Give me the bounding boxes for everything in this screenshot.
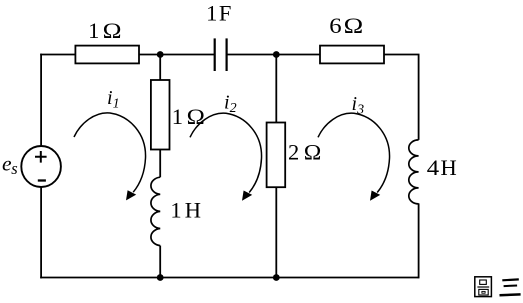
resistor R1 1 ohm horizontal body [75, 46, 139, 64]
wire top segment source to R1 [40, 54, 75, 56]
node A top-left junction dot [157, 51, 164, 58]
inductor L4 4H coil [409, 140, 419, 204]
node C bottom-left junction dot [157, 274, 164, 281]
svg-text:F: F [219, 0, 232, 25]
svg-text:H: H [441, 155, 457, 180]
svg-text:H: H [185, 198, 201, 223]
node D bottom-right junction dot [273, 274, 280, 281]
capacitor C1 left plate [214, 38, 216, 71]
svg-text:Ω: Ω [187, 105, 205, 130]
svg-text:2: 2 [288, 140, 299, 165]
voltage source plus sign [35, 151, 47, 163]
voltage source es circle [21, 146, 61, 187]
svg-text:1: 1 [206, 0, 217, 25]
wire R6 to top-right corner down to L4 [384, 55, 419, 140]
wire R2 to bottom rail [275, 187, 277, 277]
svg-text:4: 4 [427, 156, 440, 181]
wire left rail bottom [40, 187, 42, 278]
voltage source minus sign [38, 179, 46, 181]
svg-text:Ω: Ω [344, 14, 364, 39]
svg-text:1: 1 [170, 198, 181, 223]
capacitor C1 right plate [226, 38, 228, 71]
figure caption character three [500, 279, 521, 295]
node B top-right junction dot [273, 51, 280, 58]
wire L4 to bottom-right corner [418, 203, 420, 278]
wire node A down to mid resistor [159, 55, 161, 81]
svg-text:Ω: Ω [103, 19, 122, 43]
svg-text:1: 1 [172, 104, 183, 129]
wire node B down to R2 [275, 55, 277, 123]
svg-text:6: 6 [329, 14, 342, 39]
svg-text:i3: i3 [352, 93, 365, 118]
wire capacitor to R6 [227, 54, 321, 56]
svg-text:1: 1 [88, 18, 99, 43]
resistor R6 value label 6 ohm [329, 14, 342, 39]
mesh current i2 arrow [190, 113, 262, 201]
resistor R2 2 ohm vertical body [267, 123, 286, 188]
resistor R3 1 ohm vertical body [151, 80, 170, 150]
svg-text:Ω: Ω [304, 139, 322, 164]
wire R1 to capacitor [139, 54, 216, 56]
svg-text:i2: i2 [224, 91, 237, 116]
figure caption character tu (picture) [475, 277, 492, 297]
wire left rail top [40, 54, 42, 147]
svg-text:i1: i1 [107, 87, 120, 112]
wire mid resistor to L1 [159, 150, 161, 178]
resistor R6 6 ohm horizontal body [320, 46, 384, 64]
svg-text:s: s [11, 159, 17, 178]
inductor L4 value label 4 H [427, 156, 440, 181]
inductor L1 1H coil [151, 177, 160, 245]
wire L1 to bottom rail [159, 246, 161, 278]
mesh current i1 arrow [74, 113, 146, 201]
wire bottom rail [40, 277, 418, 279]
mesh current i3 arrow [318, 113, 390, 201]
